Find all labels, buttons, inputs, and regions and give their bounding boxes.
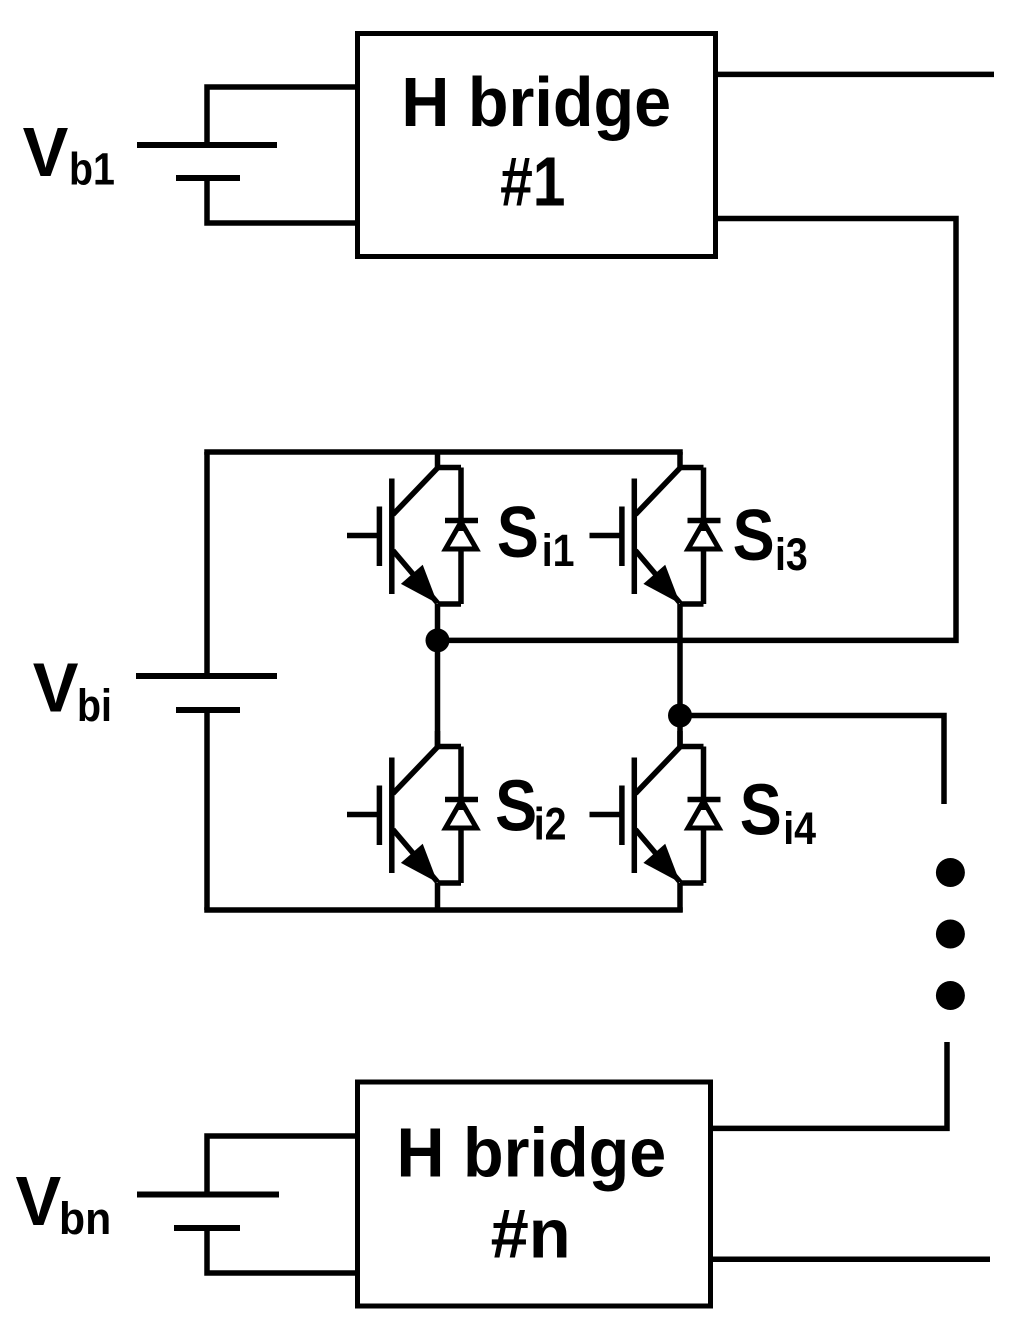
transistor Si3 (IGBT with diode) [590, 452, 721, 604]
H bridge #1 block box [358, 34, 716, 257]
svg-text:H bridge: H bridge [401, 63, 671, 141]
wire battery Vb1 positive to H bridge #1 [207, 87, 357, 145]
label Si3 [733, 496, 808, 579]
svg-text:i3: i3 [775, 530, 808, 580]
wire Si3 emitter to node B [677, 604, 683, 721]
wire H bridge #n bottom output [711, 1257, 990, 1263]
wire top rail of H bridge cell [204, 449, 683, 455]
transistor Si1 (IGBT with diode) [347, 452, 478, 604]
wire H bridge #1 bottom output to node A [438, 219, 957, 641]
node B junction dot [668, 704, 692, 728]
wire node B to Si4 collector [677, 716, 683, 749]
svg-text:S: S [497, 493, 539, 573]
wire battery Vbn positive to H bridge #n [207, 1136, 357, 1195]
label Si4 [740, 770, 817, 853]
svg-text:V: V [33, 648, 79, 727]
svg-text:#n: #n [491, 1194, 571, 1273]
ellipsis dot 1 [936, 858, 965, 887]
svg-text:S: S [495, 766, 537, 846]
battery Vbi negative plate [176, 707, 240, 713]
wire Si4 emitter to bottom rail [677, 883, 683, 912]
label Si1 [497, 493, 575, 576]
battery V_b1 negative plate [176, 175, 240, 181]
label Si2 [495, 766, 566, 849]
battery Vbi positive plate [136, 673, 277, 679]
svg-text:#1: #1 [500, 142, 565, 221]
wire battery Vbn negative to H bridge #n [207, 1228, 357, 1273]
svg-text:V: V [16, 1161, 62, 1240]
node A junction dot [426, 628, 450, 652]
battery Vbn positive plate [137, 1192, 279, 1198]
label Vbn [16, 1161, 112, 1244]
wire chain to H bridge #n top output [711, 1042, 947, 1128]
wire node A to Si2 collector [435, 640, 441, 748]
transistor Si2 (IGBT with diode) [347, 731, 478, 883]
wire left side bottom (battery Vbi to bottom rail) [204, 710, 210, 910]
ellipsis dot 2 [936, 920, 965, 949]
wire Si1 emitter to node A [435, 604, 441, 646]
wire H bridge #1 top output [716, 72, 994, 78]
svg-text:b1: b1 [69, 144, 115, 194]
wire battery Vb1 negative to H bridge #1 [207, 178, 357, 223]
svg-text:S: S [733, 496, 775, 576]
svg-text:V: V [23, 112, 69, 191]
H bridge #n block box [358, 1082, 711, 1306]
battery Vbn negative plate [174, 1225, 240, 1231]
wire bottom rail of H bridge cell [204, 907, 683, 913]
label Vbi [33, 648, 112, 731]
wire node B to chain below [680, 716, 944, 805]
transistor Si4 (IGBT with diode) [590, 731, 721, 883]
wire left side top (rail to battery Vbi) [204, 452, 210, 676]
wire Si2 emitter to bottom rail [435, 883, 441, 912]
ellipsis dot 3 [936, 981, 965, 1010]
svg-text:i2: i2 [534, 799, 567, 849]
svg-text:i4: i4 [783, 803, 816, 853]
svg-text:S: S [740, 770, 782, 850]
svg-text:bn: bn [59, 1194, 111, 1244]
svg-text:bi: bi [77, 681, 112, 731]
label Vb1 [23, 112, 115, 194]
svg-text:i1: i1 [542, 526, 575, 576]
svg-text:H bridge: H bridge [397, 1114, 667, 1192]
battery V_b1 positive plate [137, 142, 277, 148]
